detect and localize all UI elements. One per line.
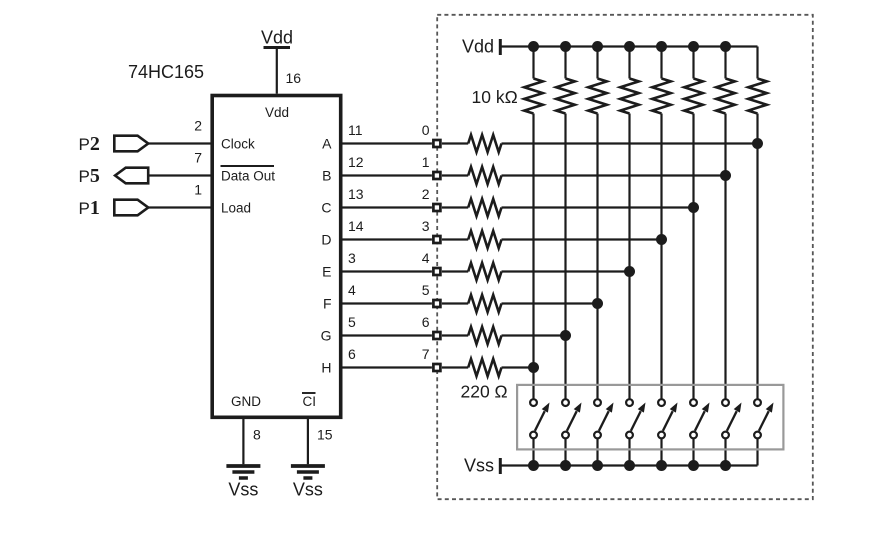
- wire Vdd rail to resistor column 8: [756, 47, 758, 79]
- wire P1 to chip: [148, 206, 211, 208]
- wire pin 13 to node 2: [341, 206, 432, 208]
- svg-text:7: 7: [194, 150, 202, 166]
- resistor 10k column 7: [716, 79, 735, 114]
- wire resistor to column junction row A: [502, 142, 758, 144]
- dashed enclosure box (switch/resistor module): [437, 15, 813, 499]
- wire resistor column 6 to switch: [692, 114, 694, 400]
- junction dot row B: [720, 170, 731, 181]
- wire pin 14 to node 3: [341, 238, 432, 240]
- resistor 10k column 6: [684, 79, 703, 114]
- wire node 6 to resistor: [442, 334, 468, 336]
- wire pin 8 to ground: [242, 417, 244, 464]
- junction dot Vss rail column 1: [528, 460, 539, 471]
- svg-text:P1: P1: [79, 197, 100, 219]
- resistor 10k column 5: [652, 79, 671, 114]
- wire Vdd to pin 16: [276, 49, 278, 94]
- resistor 10k column 8: [748, 79, 767, 114]
- power symbol Vss (switch common rail): [464, 456, 500, 476]
- svg-text:0: 0: [422, 122, 430, 138]
- wire Vdd rail to resistor column 1: [532, 47, 534, 79]
- power symbol Vdd (top supply to pin 16): [261, 28, 293, 48]
- wire resistor to column junction row H: [502, 366, 534, 368]
- resistor 220 ohm row F: [468, 295, 501, 312]
- switch S1: [530, 399, 549, 438]
- node square 2: [433, 204, 440, 211]
- wire node 2 to resistor: [442, 206, 468, 208]
- junction dot Vss rail column 6: [688, 460, 699, 471]
- switch S7: [722, 399, 741, 438]
- switch S2: [562, 399, 581, 438]
- wire switch column 5 to Vss rail: [660, 439, 662, 466]
- node square 5: [433, 300, 440, 307]
- resistor 220 ohm row A: [468, 135, 501, 152]
- DIP switch module box: [517, 385, 783, 450]
- svg-text:Vdd: Vdd: [265, 105, 289, 120]
- svg-text:5: 5: [422, 282, 430, 298]
- wire Vdd rail to resistor column 7: [724, 47, 726, 79]
- switch S8: [754, 399, 773, 438]
- wire resistor to column junction row E: [502, 270, 630, 272]
- junction dot Vdd rail column 2: [560, 41, 571, 52]
- resistor 220 ohm row H: [468, 359, 501, 376]
- resistor 10k column 3: [588, 79, 607, 114]
- svg-text:4: 4: [348, 282, 356, 298]
- svg-text:Vss: Vss: [293, 480, 323, 500]
- svg-text:1: 1: [194, 182, 202, 198]
- junction dot row F: [592, 298, 603, 309]
- junction dot Vdd rail column 3: [592, 41, 603, 52]
- junction dot Vss rail column 2: [560, 460, 571, 471]
- wire resistor to column junction row D: [502, 238, 662, 240]
- wire pin 12 to node 1: [341, 174, 432, 176]
- switch S4: [626, 399, 645, 438]
- wire Vdd rail to resistor column 4: [628, 47, 630, 79]
- svg-text:D: D: [321, 232, 331, 248]
- resistor 10k column 2: [556, 79, 575, 114]
- junction dot row A: [752, 138, 763, 149]
- wire pin 3 to node 4: [341, 270, 432, 272]
- wire node 4 to resistor: [442, 270, 468, 272]
- resistor 10k column 4: [620, 79, 639, 114]
- junction dot row G: [560, 330, 571, 341]
- resistor 220 ohm row D: [468, 231, 501, 248]
- svg-text:CI: CI: [303, 394, 317, 409]
- svg-text:P5: P5: [79, 165, 100, 187]
- svg-text:4: 4: [422, 250, 430, 266]
- svg-text:14: 14: [348, 218, 364, 234]
- wire node 7 to resistor: [442, 366, 468, 368]
- wire node 3 to resistor: [442, 238, 468, 240]
- chip label CI (clock inhibit, with overline): [302, 393, 316, 409]
- wire switch column 6 to Vss rail: [692, 439, 694, 466]
- switch S6: [690, 399, 709, 438]
- svg-text:P2: P2: [79, 133, 100, 155]
- wire switch column 1 to Vss rail: [532, 439, 534, 466]
- svg-text:H: H: [321, 360, 331, 376]
- svg-text:Vss: Vss: [464, 456, 494, 476]
- junction dot Vdd rail column 4: [624, 41, 635, 52]
- wire switch column 4 to Vss rail: [628, 439, 630, 466]
- svg-text:3: 3: [348, 250, 356, 266]
- node square 0: [433, 140, 440, 147]
- svg-text:C: C: [321, 200, 331, 216]
- svg-text:6: 6: [348, 346, 356, 362]
- wire switch column 7 to Vss rail: [724, 439, 726, 466]
- svg-text:11: 11: [348, 122, 363, 138]
- svg-text:Load: Load: [221, 200, 251, 215]
- resistor 220 ohm row G: [468, 327, 501, 344]
- wire resistor column 2 to switch: [564, 114, 566, 400]
- svg-text:15: 15: [317, 427, 333, 443]
- junction dot Vss rail column 5: [656, 460, 667, 471]
- svg-text:2: 2: [422, 186, 430, 202]
- svg-text:5: 5: [348, 314, 356, 330]
- node square 7: [433, 364, 440, 371]
- svg-text:F: F: [323, 296, 332, 312]
- wire resistor column 5 to switch: [660, 114, 662, 400]
- resistor 220 ohm row C: [468, 199, 501, 216]
- junction dot Vss rail column 7: [720, 460, 731, 471]
- svg-text:Vss: Vss: [228, 480, 258, 500]
- svg-text:10 kΩ: 10 kΩ: [472, 87, 518, 107]
- svg-text:74HC165: 74HC165: [128, 62, 204, 82]
- connector P5 tag symbol: [115, 168, 148, 184]
- wire pin 15 to ground: [307, 417, 309, 464]
- switch S3: [594, 399, 613, 438]
- node square 1: [433, 172, 440, 179]
- svg-text:Vdd: Vdd: [462, 37, 494, 57]
- junction dot Vdd rail column 6: [688, 41, 699, 52]
- wire resistor column 8 to switch: [756, 114, 758, 400]
- wire P2 to chip: [148, 142, 211, 144]
- svg-text:8: 8: [253, 427, 261, 443]
- wire resistor to column junction row B: [502, 174, 726, 176]
- wire resistor column 4 to switch: [628, 114, 630, 400]
- wire node 0 to resistor: [442, 142, 468, 144]
- node square 4: [433, 268, 440, 275]
- connector P1 tag symbol: [114, 200, 148, 216]
- junction dot row E: [624, 266, 635, 277]
- wire resistor column 7 to switch: [724, 114, 726, 400]
- svg-text:12: 12: [348, 154, 364, 170]
- ground Vss (CI pin 15): [291, 466, 325, 500]
- wire node 5 to resistor: [442, 302, 468, 304]
- wire resistor to column junction row C: [502, 206, 694, 208]
- resistor 10k column 1: [524, 79, 543, 114]
- connector P2 tag symbol: [114, 136, 148, 152]
- junction dot row H: [528, 362, 539, 373]
- junction dot row D: [656, 234, 667, 245]
- wire switch column 8 to Vss rail: [756, 439, 758, 466]
- resistor 220 ohm row E: [468, 263, 501, 280]
- op-amp/IC U1 74HC165 body: [212, 96, 341, 418]
- svg-text:6: 6: [422, 314, 430, 330]
- svg-text:16: 16: [286, 70, 302, 86]
- junction dot Vss rail column 3: [592, 460, 603, 471]
- svg-text:7: 7: [422, 346, 430, 362]
- svg-text:B: B: [322, 168, 331, 184]
- junction dot Vdd rail column 1: [528, 41, 539, 52]
- wire resistor column 1 to switch: [532, 114, 534, 400]
- wire Vdd rail to resistor column 3: [596, 47, 598, 79]
- wire resistor column 3 to switch: [596, 114, 598, 400]
- wire Vdd rail to resistor column 2: [564, 47, 566, 79]
- wire pin 4 to node 5: [341, 302, 432, 304]
- junction dot Vss rail column 4: [624, 460, 635, 471]
- svg-text:E: E: [322, 264, 331, 280]
- svg-text:3: 3: [422, 218, 430, 234]
- svg-text:2: 2: [194, 118, 202, 134]
- svg-text:Vdd: Vdd: [261, 28, 293, 48]
- junction dot Vdd rail column 7: [720, 41, 731, 52]
- switch S5: [658, 399, 677, 438]
- wire P5 to chip: [148, 174, 211, 176]
- svg-text:Data Out: Data Out: [221, 168, 275, 183]
- node square 3: [433, 236, 440, 243]
- svg-text:GND: GND: [231, 394, 261, 409]
- wire pin 5 to node 6: [341, 334, 432, 336]
- svg-text:Clock: Clock: [221, 136, 255, 151]
- ground Vss (GND pin 8): [226, 466, 260, 500]
- wire pin 11 to node 0: [341, 142, 432, 144]
- junction dot row C: [688, 202, 699, 213]
- svg-text:13: 13: [348, 186, 364, 202]
- svg-text:1: 1: [422, 154, 430, 170]
- svg-text:A: A: [322, 136, 332, 152]
- wire resistor to column junction row F: [502, 302, 598, 304]
- wire Vdd rail to resistor column 6: [692, 47, 694, 79]
- power symbol Vdd (pull-up rail): [462, 37, 500, 57]
- wire switch column 2 to Vss rail: [564, 439, 566, 466]
- chip label Data Out (with overline): [221, 166, 276, 183]
- wire pin 6 to node 7: [341, 366, 432, 368]
- junction dot Vdd rail column 5: [656, 41, 667, 52]
- wire Vdd rail: [502, 45, 758, 47]
- resistor 220 ohm row B: [468, 167, 501, 184]
- node square 6: [433, 332, 440, 339]
- svg-text:220 Ω: 220 Ω: [461, 382, 508, 402]
- wire node 1 to resistor: [442, 174, 468, 176]
- svg-text:G: G: [321, 328, 332, 344]
- wire Vss rail: [502, 464, 758, 466]
- wire Vdd rail to resistor column 5: [660, 47, 662, 79]
- wire switch column 3 to Vss rail: [596, 439, 598, 466]
- wire resistor to column junction row G: [502, 334, 566, 336]
